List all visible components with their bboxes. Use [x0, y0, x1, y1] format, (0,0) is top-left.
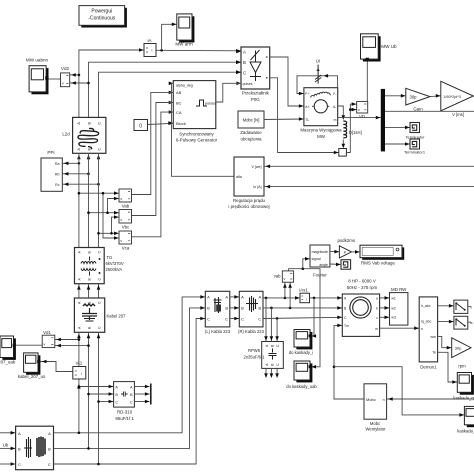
selector block ir: [454, 300, 468, 313]
wire vab output to Fourier and scope do kaskady_uab: [289, 269, 320, 367]
scope kabel_207_us: [18, 353, 46, 379]
wire gain to big gain: [430, 95, 441, 98]
svg-text:Block: Block: [176, 121, 186, 126]
RPW5 ground stub C: [276, 368, 278, 374]
svg-text:P0G: P0G: [251, 97, 260, 102]
svg-text:K: K: [344, 250, 347, 255]
capacitor bank RPW5 2x35uF: [244, 342, 284, 369]
three-phase inductor L2d: [62, 117, 106, 153]
wire source input C: [0, 463, 16, 465]
svg-text:AB: AB: [176, 90, 182, 95]
wire gain to RMS display: [352, 251, 361, 253]
capacitor bank RD-310 95uF: [114, 382, 135, 421]
svg-text:Wentylator: Wentylator: [366, 426, 387, 431]
svg-text:A: A: [48, 431, 51, 436]
wire R Kabla C output to motor: [263, 317, 342, 318]
svg-text:iA1: iA1: [76, 361, 83, 366]
wire Vd output up to scope MW Ub: [366, 62, 368, 102]
svg-text:Mobc: Mobc: [370, 421, 380, 426]
svg-text:Gain: Gain: [413, 106, 423, 111]
gain 30p Gain: [406, 88, 430, 111]
svg-text:Vd2: Vd2: [61, 66, 70, 71]
svg-text:Zadawanie: Zadawanie: [240, 130, 262, 135]
svg-text:Regulacja prądu: Regulacja prądu: [233, 198, 266, 203]
wire RD-310 C output stub: [134, 401, 149, 403]
wire Wentylator output to motor Tm: [334, 325, 364, 399]
wire constant 0 to Block input: [148, 123, 174, 124]
svg-text:pulses: pulses: [205, 102, 216, 106]
arrow into iA1 bottom: [77, 384, 81, 389]
svg-text:Te: Te: [432, 351, 436, 355]
svg-text:i: i: [81, 371, 82, 376]
wire motor m to Demux1: [380, 327, 420, 329]
block PPi: [41, 150, 62, 191]
voltage measurement vab: [274, 271, 294, 282]
svg-text:A: A: [76, 148, 81, 151]
svg-text:C: C: [130, 401, 133, 405]
wire motor b to MD RW: [380, 307, 390, 309]
svg-text:n: n: [383, 398, 385, 402]
svg-text:C: C: [225, 317, 228, 322]
wire A bracket to Vca minus: [103, 193, 119, 238]
svg-text:kabel_207_us: kabel_207_us: [18, 374, 46, 379]
voltage measurement Vab: [119, 189, 132, 208]
svg-text:C: C: [207, 317, 210, 322]
wire stub to Vd upper input: [350, 103, 356, 105]
svg-text:Kabel 207: Kabel 207: [107, 314, 127, 319]
svg-text:Rb: Rb: [55, 173, 60, 177]
svg-text:alpha_deg: alpha_deg: [176, 84, 193, 88]
wire L Kabla to R Kabla A: [230, 296, 240, 298]
thyristor converter Przeksztaltnik P0G: [241, 47, 270, 102]
svg-text:L2d: L2d: [62, 132, 70, 137]
wire iAs1 output to motor A: [310, 297, 343, 299]
wire C bracket to Vbc minus: [112, 217, 120, 233]
svg-text:i: i: [152, 48, 153, 53]
wire phase A tap to Vd1: [55, 339, 79, 341]
svg-text:C: C: [97, 122, 102, 125]
wire armature A- to smoothing inductor: [338, 106, 344, 116]
wire source row A to L Kabla 223: [54, 297, 206, 433]
gain psdk2ms: [338, 238, 356, 258]
wire RD-310 A output stub: [134, 386, 149, 388]
svg-text:Ra: Ra: [55, 162, 60, 166]
svg-text:F+: F+: [305, 92, 309, 96]
scope MW Ub: [361, 34, 398, 62]
terminator Terminator: [406, 123, 426, 140]
wire iA1 output to scope kabel_207_us: [40, 362, 72, 372]
svg-text:RD-310: RD-310: [117, 409, 133, 414]
svg-text:C: C: [18, 462, 21, 467]
wire phase A vertical below Kabel 207: [78, 332, 80, 433]
svg-text:Powergui: Powergui: [91, 9, 112, 15]
svg-text:l_207_uab: l_207_uab: [0, 360, 16, 365]
label V ms: [452, 112, 464, 117]
svg-text:C: C: [97, 326, 101, 329]
wire regulator alfa to alpha_deg: [172, 83, 235, 176]
field excitation loop with UI source: [297, 76, 338, 94]
svg-text:0: 0: [139, 124, 142, 130]
svg-text:V [ms]: V [ms]: [452, 112, 464, 117]
voltage measurement Vca: [119, 231, 132, 250]
wire Demux1 Te to scope kaskada: [438, 352, 458, 382]
svg-text:A: A: [130, 385, 133, 389]
block MD RW: [390, 287, 408, 325]
constant 0: [134, 120, 148, 131]
cable block L Kabla 223: [205, 291, 231, 334]
scope kabel_207_uab: [0, 336, 16, 365]
svg-text:TL: TL: [305, 118, 309, 122]
wire R Kabla A output to iAs1: [263, 297, 300, 299]
induction motor 8 HP: [342, 279, 379, 337]
svg-text:c: c: [376, 316, 378, 320]
mux bar right of RD-310: [150, 384, 152, 405]
svg-text:io [A]: io [A]: [253, 185, 261, 189]
wire motor a to MD RW: [380, 297, 390, 299]
wire machine m output to bus bar: [338, 117, 381, 119]
svg-text:C: C: [258, 317, 261, 322]
wire converter minus return path: [270, 78, 339, 153]
wire motor c to MD RW: [380, 316, 390, 318]
wire phase verticals L2d to TG: [78, 153, 80, 247]
svg-text:(L) Kabla 223: (L) Kabla 223: [205, 329, 231, 334]
svg-text:Rc: Rc: [55, 183, 60, 187]
svg-text:Ub: Ub: [3, 442, 9, 447]
svg-text:a: a: [376, 297, 378, 301]
svg-text:A: A: [225, 295, 228, 300]
svg-text:pulses: pulses: [243, 82, 253, 86]
wire Vab output up to AB input: [131, 92, 174, 194]
wire phase C vertical below Kabel 207: [98, 332, 100, 464]
wire Vd1 output to scope kabel_207_uab: [16, 344, 42, 346]
svg-text:v: v: [284, 276, 286, 281]
current measurement iA1: [73, 361, 86, 379]
wire phase B to vab: [289, 282, 291, 308]
wire phase A down to RPW5: [265, 298, 267, 342]
voltage measurement Vbc: [119, 210, 132, 230]
cable block Kabel 207: [74, 298, 126, 332]
svg-text:8 HP - 6000 V: 8 HP - 6000 V: [348, 279, 376, 284]
svg-text:B: B: [241, 306, 244, 311]
svg-text:RPW5: RPW5: [248, 348, 261, 353]
svg-text:MW uabnn: MW uabnn: [26, 58, 49, 63]
wire phase C tap to RD-310 C: [99, 401, 114, 403]
wire bus to gain: [385, 95, 406, 97]
wire phase A tap to PPi Ra: [62, 162, 79, 164]
three-phase source Ub: [3, 426, 54, 470]
scope kaskada Mobc clipped: [457, 406, 474, 433]
svg-text:2500kVA: 2500kVA: [106, 267, 123, 272]
wire measurement square to Vd vertical: [346, 104, 350, 152]
svg-text:n: n: [421, 327, 423, 331]
wire Vd2 plus input from phase A: [70, 74, 79, 76]
svg-text:30p: 30p: [455, 346, 462, 351]
svg-text:is: is: [470, 321, 473, 325]
selector block iq: [454, 316, 468, 329]
wire source input B: [0, 447, 16, 449]
svg-text:Mobc [N]: Mobc [N]: [243, 118, 260, 123]
svg-text:Fourier: Fourier: [313, 273, 327, 278]
svg-text:do kaskady_uab: do kaskady_uab: [286, 384, 317, 389]
svg-text:MW arm: MW arm: [175, 42, 193, 47]
block Fourier: [310, 245, 330, 278]
block Regulacja pradu i predkosci obrotowej: [228, 157, 269, 209]
wire inductor to measurement square: [342, 140, 344, 145]
cable block R Kabla 223: [238, 291, 265, 334]
svg-text:B: B: [225, 306, 228, 311]
wire long feedback io A: [264, 186, 474, 188]
wire phase A to vab: [284, 282, 286, 298]
svg-text:vab: vab: [274, 274, 281, 279]
wire phase B from L2d to converter B input: [89, 62, 242, 117]
wire tap B to Vbc plus: [89, 212, 120, 214]
wire phase verticals TG to Kabel 207: [78, 284, 80, 298]
wire Vd2 minus input from phase B: [70, 82, 89, 84]
svg-text:ir_abc: ir_abc: [421, 304, 431, 308]
RPW5 ground stub A: [265, 368, 267, 374]
svg-text:iAs1: iAs1: [299, 287, 308, 292]
svg-text:30p: 30p: [410, 94, 418, 99]
svg-text:v: v: [120, 196, 122, 201]
wire long feedback V we: [264, 165, 474, 167]
svg-text:F-: F-: [333, 92, 336, 96]
wire branch to scope do kaskady_i: [310, 298, 314, 336]
svg-text:D[1sH]: D[1sH]: [349, 130, 362, 135]
svg-text:C: C: [97, 148, 102, 151]
svg-text:v: v: [43, 341, 45, 346]
svg-text:C: C: [48, 462, 51, 467]
svg-text:50Hz - 375 rpm: 50Hz - 375 rpm: [347, 285, 378, 290]
scope MW_arm: [175, 14, 194, 47]
wire bus V ms line: [385, 110, 474, 112]
wire bus to Terminator: [385, 126, 410, 128]
powergui block: [79, 6, 127, 28]
svg-text:Tm: Tm: [344, 324, 349, 328]
wire Mobc to TL input: [264, 118, 304, 121]
smoothing inductor D 1sH: [343, 121, 361, 138]
svg-text:B: B: [87, 122, 92, 125]
svg-text:A: A: [241, 295, 244, 300]
small measurement square: [339, 149, 347, 157]
wire generator pulses output to converter: [216, 83, 241, 102]
wire phase B vertical below Kabel 207: [88, 332, 90, 448]
wire tap C to Vca plus: [99, 232, 120, 234]
gain rpm 30p: [452, 338, 471, 369]
svg-text:Przekształtnik: Przekształtnik: [242, 90, 270, 95]
svg-text:A: A: [76, 122, 81, 125]
svg-text:m: m: [375, 327, 378, 331]
svg-text:C: C: [115, 401, 118, 405]
RPW5 ground stub B: [270, 368, 272, 374]
svg-text:MW Ub: MW Ub: [381, 44, 397, 49]
wire iA branch to scope MW_arm: [162, 24, 177, 50]
wire Vca output up to CA input: [131, 112, 174, 237]
DC machine Maszyna Wyciagowa MW: [300, 88, 342, 139]
wire B bracket to Vab minus: [108, 199, 120, 213]
svg-text:B: B: [259, 306, 262, 311]
wire branch to scope kaskada Mobc: [334, 367, 464, 415]
svg-text:C: C: [241, 317, 244, 322]
svg-text:rpm: rpm: [458, 364, 466, 369]
svg-text:B: B: [18, 447, 21, 452]
voltage measurement Vd1: [42, 330, 55, 348]
svg-text:C: C: [97, 278, 101, 281]
svg-text:C: C: [243, 70, 246, 75]
wire source input A: [0, 432, 16, 434]
svg-text:Vca: Vca: [122, 245, 130, 250]
svg-text:b: b: [376, 307, 378, 311]
wire Fourier magnitude to gain: [330, 250, 340, 252]
svg-text:v: v: [62, 81, 64, 86]
voltage measurement Vd: [357, 101, 368, 118]
svg-text:do kaskady_i: do kaskady_i: [289, 350, 314, 355]
wire phase C tap to PPi Rc: [62, 183, 98, 185]
wire phase A tap to RD-310 A: [79, 386, 114, 388]
transformer TG 6kV/370V 2500kVA: [75, 248, 124, 284]
svg-text:-Continuous: -Continuous: [88, 16, 115, 22]
svg-text:MD RW: MD RW: [391, 287, 407, 292]
svg-text:BC: BC: [176, 100, 182, 105]
svg-text:A+: A+: [305, 105, 309, 109]
svg-text:Demux1: Demux1: [420, 365, 437, 370]
wire Demux1 iq_abc to selector: [438, 321, 454, 323]
svg-text:95uF/1f 1: 95uF/1f 1: [115, 416, 134, 421]
svg-text:B: B: [115, 393, 118, 397]
svg-text:UI: UI: [316, 59, 320, 64]
svg-text:v: v: [358, 107, 360, 112]
wire phase C down to RPW5: [276, 318, 278, 341]
wire stub to Vd lower input: [350, 109, 356, 111]
bus selector bar: [381, 89, 385, 151]
wire bus to Terminator1: [385, 143, 410, 145]
svg-text:signal: signal: [312, 257, 321, 261]
terminator Terminator1: [404, 139, 426, 154]
svg-text:VD: VD: [359, 114, 365, 119]
wire phase B down to RPW5: [270, 308, 272, 342]
wire source row B to L Kabla 223: [54, 308, 206, 449]
wire Vbc output up to BC input: [131, 103, 174, 216]
svg-text:Vbc: Vbc: [122, 224, 130, 229]
variable source UI symbol: [315, 59, 321, 84]
wire phase B tap to PPi Rb: [62, 173, 88, 175]
svg-text:Synchronizowany: Synchronizowany: [179, 131, 214, 136]
current measurement iAs1: [299, 287, 309, 302]
wire Demux1 ir_abc to selector: [438, 305, 454, 307]
wire Demux1 wm to rpm gain: [438, 336, 452, 347]
wire branch to Fourier signal input: [303, 259, 310, 269]
scope do kaskady_uab: [286, 361, 317, 389]
svg-text:angle: angle: [319, 263, 328, 267]
wire phase C from L2d to converter C input: [99, 72, 242, 117]
wire phase B tap to Vd1: [55, 345, 89, 347]
svg-text:RMS Vab voltage: RMS Vab voltage: [361, 261, 395, 266]
svg-text:PPi: PPi: [47, 150, 54, 155]
block Demux1: [419, 297, 437, 370]
svg-text:C: C: [97, 251, 101, 254]
wire phase B tap to RD-310 B: [89, 393, 114, 395]
svg-text:(R) Kabla 223: (R) Kabla 223: [238, 329, 265, 334]
svg-text:TG: TG: [107, 255, 113, 260]
svg-text:kaskada_M: kaskada_M: [457, 429, 474, 434]
svg-text:obciążenia: obciążenia: [241, 136, 263, 141]
svg-text:magnitude: magnitude: [312, 250, 328, 254]
gain 1/60*2pi*3: [441, 81, 474, 111]
svg-text:CA: CA: [176, 110, 182, 115]
svg-text:A: A: [115, 385, 118, 389]
svg-text:w1: w1: [391, 297, 396, 301]
svg-text:wm: wm: [431, 335, 437, 339]
svg-text:w2: w2: [391, 307, 396, 311]
svg-text:A: A: [259, 295, 262, 300]
svg-text:w3: w3: [391, 316, 396, 320]
svg-text:B: B: [130, 393, 133, 397]
wire RD-310 B output stub: [134, 393, 149, 395]
svg-text:6-Pulsowy Generator: 6-Pulsowy Generator: [176, 138, 218, 143]
svg-text:alfa: alfa: [236, 175, 242, 179]
current measurement iA: [144, 38, 156, 57]
svg-text:Vd1: Vd1: [43, 330, 51, 335]
svg-text:2x35uF/6 1: 2x35uF/6 1: [244, 354, 266, 359]
svg-text:B: B: [48, 447, 51, 452]
block Synchronizowany 6-Pulsowy Generator: [173, 81, 217, 143]
wire R Kabla B output to motor: [263, 307, 342, 309]
svg-text:Maszyna Wyciągowa: Maszyna Wyciągowa: [300, 128, 342, 133]
fan load block Mobc Wentylator: [364, 384, 387, 432]
svg-text:C: C: [97, 301, 101, 304]
svg-text:A: A: [207, 295, 210, 300]
load torque block Mobc N: [238, 111, 264, 141]
wire rpm gain wrap to Wentylator n input: [387, 398, 474, 400]
display RMS Vab voltage: [360, 245, 404, 265]
wire phase A from L2d up to iA: [79, 50, 144, 117]
svg-text:v: v: [120, 217, 122, 222]
svg-text:A-: A-: [333, 105, 336, 109]
wire converter plus output to armature A+: [270, 57, 304, 106]
svg-text:V [we]: V [we]: [252, 165, 262, 169]
scope kaskada rpm: [453, 373, 474, 401]
wire selector ir output: [468, 306, 471, 308]
wire iA output to converter A input: [156, 49, 241, 52]
svg-text:6kV/370V: 6kV/370V: [106, 261, 124, 266]
svg-text:A: A: [243, 50, 246, 55]
svg-text:1/60*2pi*3: 1/60*2pi*3: [443, 95, 461, 99]
wire selector iq output: [468, 321, 471, 323]
wire Fourier angle to terminator: [330, 263, 341, 265]
wire L Kabla to R Kabla B: [230, 307, 240, 309]
svg-text:Terminator1: Terminator1: [404, 149, 426, 154]
svg-text:A: A: [18, 431, 21, 436]
svg-text:Vab: Vab: [122, 203, 130, 208]
wire L Kabla to R Kabla C: [230, 318, 240, 320]
svg-text:kaskada_rpm: kaskada_rpm: [453, 395, 474, 400]
svg-text:Mobc: Mobc: [366, 397, 376, 402]
svg-text:MW: MW: [317, 134, 326, 139]
wire source row C to L Kabla 223: [54, 319, 206, 465]
svg-text:psdk2ms: psdk2ms: [338, 238, 356, 243]
svg-text:i prędkości obrotowej: i prędkości obrotowej: [228, 204, 269, 209]
voltage measurement Vd2: [61, 66, 70, 87]
svg-text:B: B: [87, 148, 92, 151]
svg-text:v: v: [120, 238, 122, 243]
terminator for angle output: [341, 260, 351, 270]
wire tap A to Vab plus: [79, 192, 119, 194]
svg-text:B: B: [207, 306, 210, 311]
svg-text:m: m: [334, 118, 337, 122]
svg-text:B: B: [243, 60, 246, 65]
scope do kaskady_i: [289, 330, 314, 355]
scope MW_uabnn: [26, 58, 49, 95]
wire Vd2 to scope MW_uabnn: [49, 78, 61, 80]
